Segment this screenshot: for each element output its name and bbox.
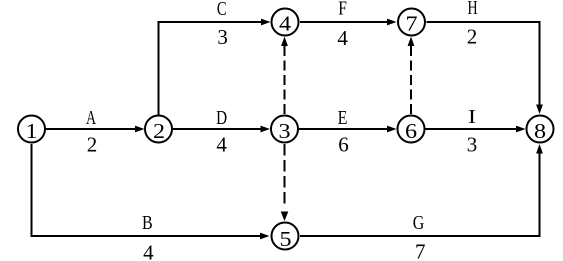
svg-text:2: 2 <box>87 133 98 157</box>
svg-text:3: 3 <box>467 133 478 157</box>
svg-text:G: G <box>413 211 425 233</box>
svg-text:3: 3 <box>217 25 228 49</box>
svg-text:4: 4 <box>143 241 154 261</box>
svg-text:6: 6 <box>405 119 417 142</box>
svg-text:4: 4 <box>279 12 291 35</box>
svg-text:4: 4 <box>216 133 227 157</box>
svg-text:3: 3 <box>278 119 290 142</box>
svg-text:4: 4 <box>337 26 348 50</box>
svg-text:E: E <box>338 106 348 128</box>
svg-text:I: I <box>468 105 476 128</box>
svg-text:2: 2 <box>467 25 478 49</box>
svg-text:1: 1 <box>25 119 37 142</box>
svg-text:F: F <box>338 0 347 19</box>
svg-text:A: A <box>86 107 97 129</box>
svg-text:5: 5 <box>279 227 291 250</box>
svg-text:D: D <box>216 106 227 129</box>
svg-text:8: 8 <box>534 119 546 142</box>
svg-text:7: 7 <box>415 239 426 261</box>
svg-text:2: 2 <box>153 119 165 142</box>
svg-text:H: H <box>467 0 477 19</box>
svg-text:C: C <box>217 0 227 20</box>
svg-text:7: 7 <box>405 12 417 35</box>
svg-text:B: B <box>142 211 153 233</box>
svg-text:6: 6 <box>338 133 349 157</box>
